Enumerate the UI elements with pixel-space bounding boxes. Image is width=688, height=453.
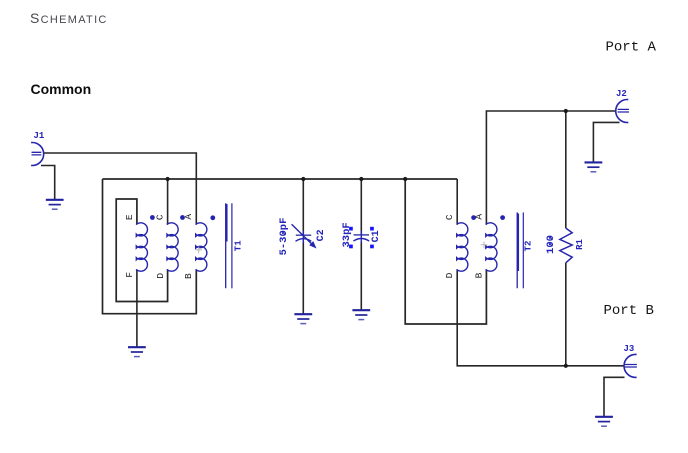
ground below T1 pin F xyxy=(128,347,146,356)
R1 value slashed zeros xyxy=(549,237,552,247)
resistor R1 zigzag xyxy=(560,228,572,263)
capacitor C2 variable arrow xyxy=(292,224,312,244)
wire main bus xyxy=(103,178,458,180)
svg-text:5-30pF: 5-30pF xyxy=(278,218,290,256)
T1 polarity dot winding 1 xyxy=(150,215,155,220)
capacitor C1 curved plate xyxy=(353,239,369,242)
capacitor C2 pin stubs xyxy=(302,231,304,243)
transformer T2 winding A-B xyxy=(486,223,497,271)
junction bus/C1 xyxy=(359,177,363,181)
svg-text:Common: Common xyxy=(31,81,92,97)
C2 value slashed zero xyxy=(282,232,285,235)
T2 core line 2 xyxy=(522,212,524,288)
wire bus to C2 xyxy=(302,179,304,234)
svg-text:D: D xyxy=(444,272,455,278)
connector J3 center pin xyxy=(625,365,637,368)
svg-text:J1: J1 xyxy=(34,131,45,141)
wire T1 pin F to ground xyxy=(136,271,138,348)
wire J3 shield to ground xyxy=(604,377,625,417)
wire C2 to ground xyxy=(302,242,304,315)
svg-text:R1: R1 xyxy=(575,239,585,250)
svg-text:B: B xyxy=(183,273,194,279)
ground below C1 xyxy=(352,310,370,319)
wire J1 shield to ground xyxy=(41,166,55,200)
svg-text:F: F xyxy=(124,272,135,278)
wire bus to T1 pin C xyxy=(167,179,169,224)
wire T2 pin A to J2 xyxy=(486,111,615,224)
T2 origin cross xyxy=(481,242,488,249)
ground below J3 xyxy=(595,417,613,426)
T1 core line 1 xyxy=(226,203,227,288)
svg-text:B: B xyxy=(473,272,484,278)
wire bus to C1 xyxy=(360,179,362,234)
junction J2 node/R1 xyxy=(564,109,568,113)
wire T1 pin E to pin D loop xyxy=(116,199,167,302)
capacitor C1 flat plate xyxy=(354,234,369,236)
ground below J2 xyxy=(585,162,603,171)
C1 selection handle bottom-right xyxy=(370,245,374,249)
svg-text:33pF: 33pF xyxy=(341,222,353,247)
T1 polarity dot winding 3 xyxy=(210,215,215,220)
capacitor C2 curved plate xyxy=(296,239,312,242)
capacitor C2 flat plate xyxy=(296,234,311,236)
svg-text:T2: T2 xyxy=(524,241,534,252)
T1 polarity dot winding 2 xyxy=(180,215,185,220)
wire bus left to T1 pin B xyxy=(103,179,197,314)
wire J2 shield to ground xyxy=(593,122,619,162)
svg-text:E: E xyxy=(124,214,135,220)
junction J3 node/R1 xyxy=(564,364,568,368)
junction bus/T2 bypass xyxy=(403,177,407,181)
T2 core line 1 xyxy=(517,212,518,288)
C1 selection handle top-right xyxy=(370,227,374,231)
ground below C2 xyxy=(294,314,312,323)
svg-text:J3: J3 xyxy=(624,344,635,354)
wire bus to T2 pin C xyxy=(456,179,458,224)
wire T2 pin D to J3 xyxy=(457,271,624,366)
transformer T1 winding C-D xyxy=(167,223,178,271)
svg-text:T1: T1 xyxy=(234,240,244,251)
connector J2 arc xyxy=(616,100,629,123)
capacitor C2 arrow head xyxy=(309,241,316,248)
svg-text:Port A: Port A xyxy=(606,40,657,56)
svg-text:C1: C1 xyxy=(371,230,382,242)
junction bus/T1 pin C xyxy=(166,177,170,181)
wire J1 to T1 pin A xyxy=(44,153,197,224)
wire J2 node to R1 xyxy=(565,111,567,228)
wire R1 to J3 node xyxy=(565,263,567,366)
svg-text:D: D xyxy=(155,273,166,279)
svg-text:J2: J2 xyxy=(616,89,627,99)
svg-text:C: C xyxy=(154,214,165,220)
ground below J1 xyxy=(46,200,64,209)
T2 polarity dot winding 1 xyxy=(471,215,476,220)
T2 polarity dot winding 2 xyxy=(500,215,505,220)
connector J1 arc xyxy=(31,143,44,166)
svg-text:C: C xyxy=(444,214,455,220)
svg-text:SCHEMATIC: SCHEMATIC xyxy=(30,10,108,26)
C1 selection handle bottom-left xyxy=(349,245,353,249)
T1 origin cross xyxy=(195,247,202,254)
svg-text:C2: C2 xyxy=(316,229,327,241)
svg-text:A: A xyxy=(183,214,194,220)
capacitor C1 pin stubs xyxy=(360,231,362,243)
svg-text:A: A xyxy=(473,214,484,220)
C1 selection handle top-left xyxy=(349,227,353,231)
T1 core line 2 xyxy=(231,203,233,288)
transformer T2 winding C-D xyxy=(457,223,468,271)
connector J1 center pin xyxy=(32,152,42,155)
wire bus to T2 pin B bypass xyxy=(405,179,486,324)
svg-text:Port B: Port B xyxy=(604,303,654,319)
connector J2 center pin xyxy=(618,109,629,112)
connector J3 arc xyxy=(624,354,637,377)
wire C1 to ground xyxy=(360,241,362,310)
junction bus/C2 xyxy=(301,177,305,181)
transformer T1 winding E-F xyxy=(136,223,147,271)
transformer T1 winding A-B xyxy=(196,223,207,271)
